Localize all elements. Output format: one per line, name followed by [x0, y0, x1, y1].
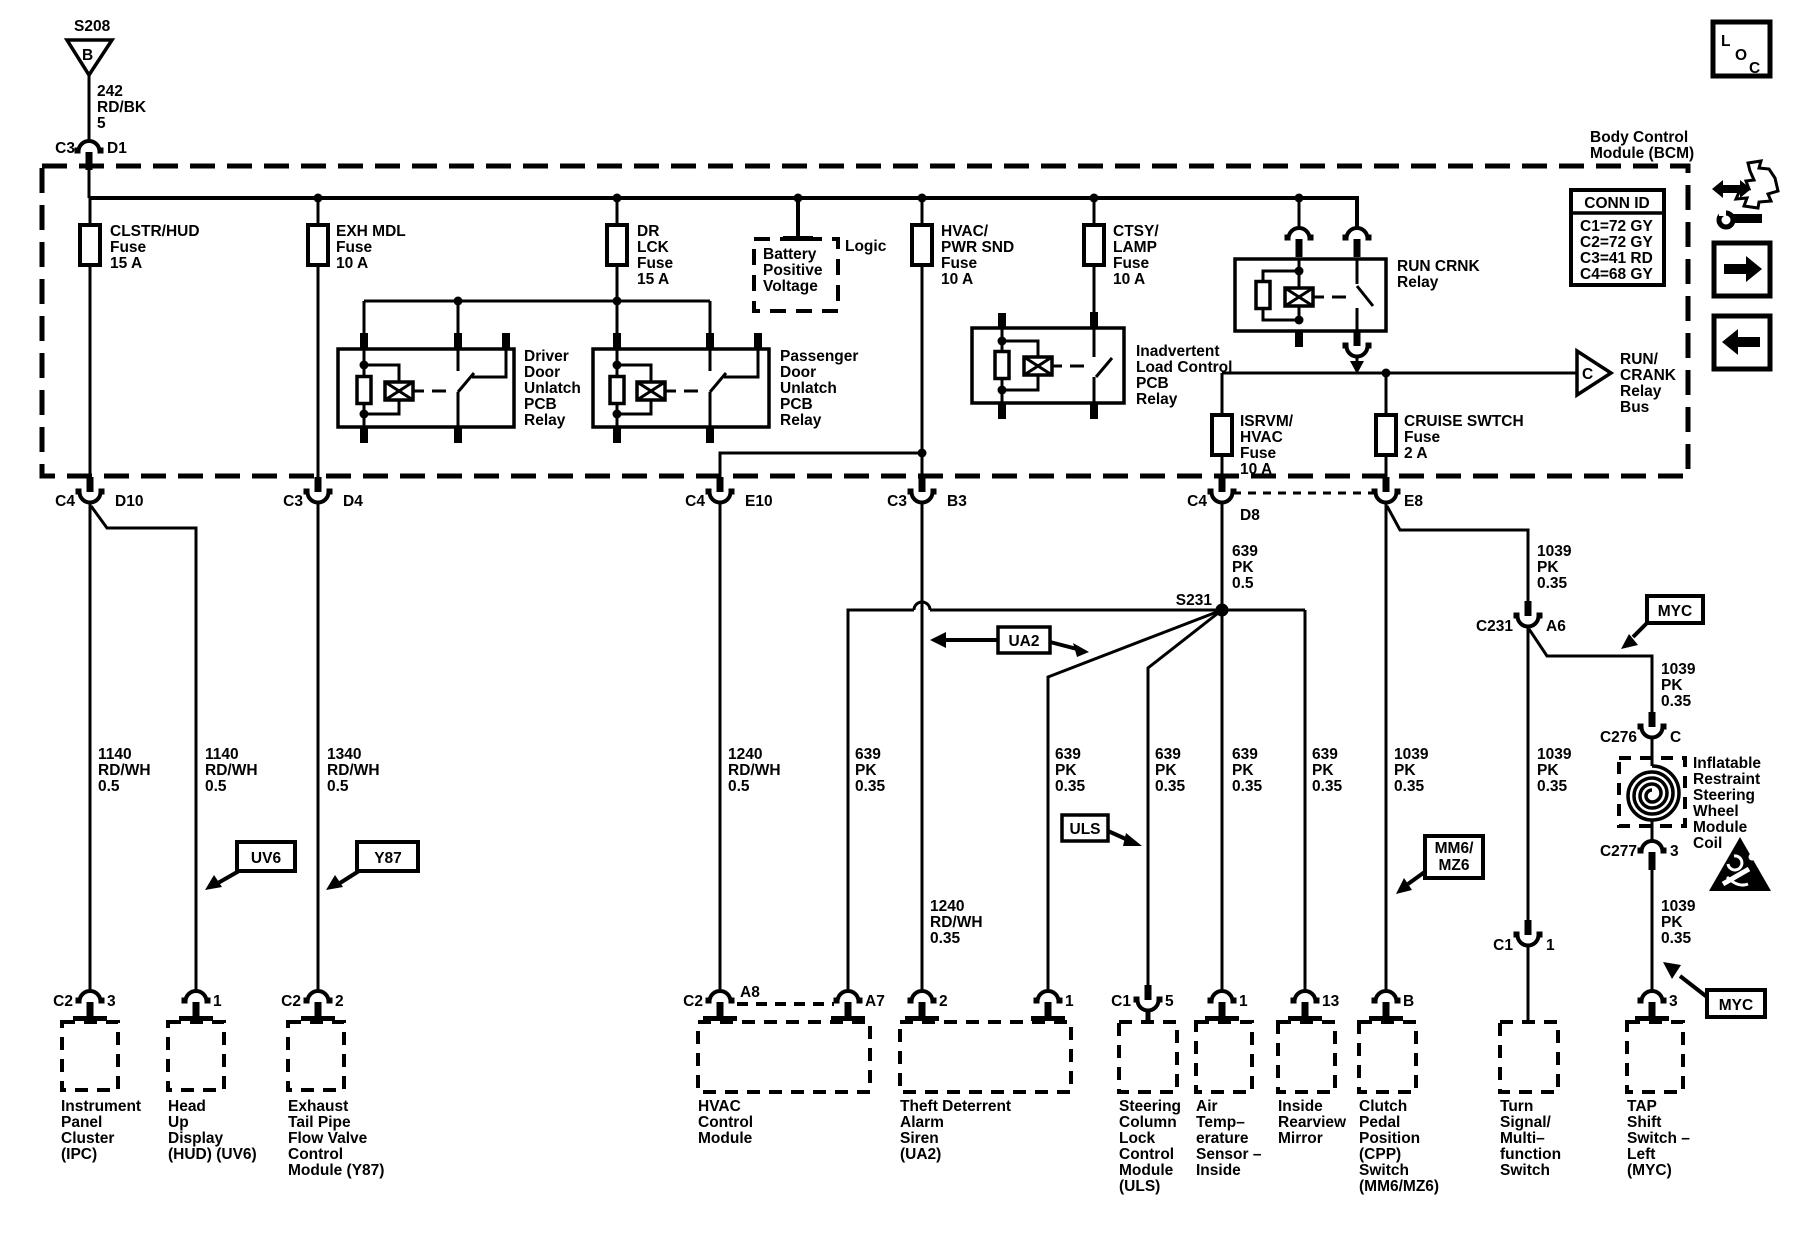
svg-text:RUN/: RUN/: [1620, 351, 1659, 368]
svg-text:(HUD) (UV6): (HUD) (UV6): [168, 1146, 257, 1163]
svg-text:639: 639: [1055, 746, 1081, 763]
svg-text:PK: PK: [1055, 762, 1077, 779]
node: bus junction at battery voltage tap: [794, 194, 803, 203]
node: sub-bus junction at DR LCK fuse feed: [613, 297, 622, 306]
svg-text:Bus: Bus: [1620, 399, 1649, 416]
svg-text:C4: C4: [1187, 493, 1207, 510]
svg-text:Unlatch: Unlatch: [780, 380, 837, 397]
svg-text:Fuse: Fuse: [1113, 255, 1150, 272]
wire coil to switch actuator (dashed): [665, 390, 676, 393]
svg-text:C2=72 GY: C2=72 GY: [1580, 234, 1653, 251]
svg-text:0.5: 0.5: [1232, 575, 1254, 592]
wire relay bus to E8 through CRUISE SWTCH fuse: [1385, 373, 1388, 477]
passenger relay switch blade: [710, 373, 726, 392]
svg-text:Inadvertent: Inadvertent: [1136, 343, 1220, 360]
wire S231 left branch with hop over siren wire: [848, 602, 1305, 991]
TAP Shift Switch dashed box: [1627, 1022, 1683, 1092]
callout Y87: [357, 842, 418, 871]
wire bus to RUN CRNK coil pin: [1298, 198, 1301, 228]
connector C1 1: [1514, 920, 1543, 946]
fuse CLSTR/HUD 15 A: [80, 225, 100, 265]
icon: two-way hand/wrench symbol: [1736, 161, 1778, 208]
svg-text:LCK: LCK: [637, 239, 670, 256]
wire C231 branch to C276: [1529, 629, 1652, 712]
passenger relay coil circuit: [616, 365, 619, 414]
connector C3 D4: [304, 477, 333, 503]
svg-text:Module: Module: [698, 1130, 753, 1147]
wire bus to inadvertent relay switch through CTSY/LAMP fuse: [1093, 198, 1096, 328]
driver relay switch blade: [458, 373, 474, 392]
svg-text:C231: C231: [1476, 618, 1513, 635]
Body Control Module (BCM) dashed box: [42, 166, 1688, 476]
splice S208 triangle B: [67, 40, 112, 75]
RUN CRNK switch output: [1356, 308, 1359, 331]
svg-text:E8: E8: [1404, 493, 1423, 510]
svg-text:0.35: 0.35: [1232, 778, 1263, 795]
svg-text:B: B: [1403, 993, 1414, 1010]
SIR caution triangle: [1709, 837, 1771, 891]
Clutch Pedal Position Switch dashed box: [1359, 1022, 1416, 1092]
wire bus tap to Battery Positive Voltage logic box: [796, 198, 800, 239]
svg-text:RD/WH: RD/WH: [728, 762, 781, 779]
node: inadvertent coil top: [998, 337, 1007, 346]
resistor in RUN CRNK relay: [1256, 282, 1270, 309]
svg-text:C1: C1: [1111, 993, 1131, 1010]
connector E8: [1372, 477, 1401, 503]
svg-text:1340: 1340: [327, 746, 361, 763]
svg-text:PCB: PCB: [524, 396, 557, 413]
node: bus junction at DR LCK fuse: [613, 194, 622, 203]
svg-text:Display: Display: [168, 1130, 224, 1147]
svg-text:RD/BK: RD/BK: [97, 99, 147, 116]
svg-text:Fuse: Fuse: [1240, 445, 1277, 462]
svg-text:function: function: [1500, 1146, 1561, 1163]
svg-text:C2: C2: [683, 993, 703, 1010]
svg-text:Switch: Switch: [1359, 1162, 1409, 1179]
svg-text:PK: PK: [1661, 677, 1683, 694]
svg-text:C3=41 RD: C3=41 RD: [1580, 250, 1653, 267]
callout MYC with arrow (upper): [1647, 596, 1703, 623]
svg-text:DR: DR: [637, 223, 659, 240]
svg-text:Y87: Y87: [374, 850, 402, 867]
fuse CTSY/LAMP 10 A: [1084, 225, 1104, 265]
svg-text:639: 639: [1155, 746, 1181, 763]
svg-text:1039: 1039: [1661, 898, 1696, 915]
svg-text:Tail Pipe: Tail Pipe: [288, 1114, 351, 1131]
RUN CRNK switch feed: [1356, 259, 1359, 284]
node C: RUN/CRANK Relay Bus off-page triangle: [1577, 351, 1611, 395]
connector C277 3: [1638, 841, 1667, 870]
svg-text:Inside: Inside: [1278, 1098, 1323, 1115]
svg-text:Unlatch: Unlatch: [524, 380, 581, 397]
svg-text:Cluster: Cluster: [61, 1130, 114, 1147]
svg-text:0.35: 0.35: [1537, 778, 1568, 795]
Instrument Panel Cluster dashed box: [62, 1022, 118, 1090]
svg-text:MYC: MYC: [1719, 997, 1753, 1014]
svg-text:Fuse: Fuse: [637, 255, 674, 272]
svg-text:1039: 1039: [1661, 661, 1696, 678]
svg-text:Shift: Shift: [1627, 1114, 1661, 1131]
svg-text:S208: S208: [74, 18, 111, 35]
callout ULS with arrow: [1062, 815, 1108, 841]
svg-text:L: L: [1721, 33, 1730, 50]
svg-text:PK: PK: [855, 762, 877, 779]
svg-text:0.35: 0.35: [1394, 778, 1425, 795]
passenger relay coil output pin: [616, 414, 619, 427]
inadvertent relay coil feed pin: [998, 313, 1006, 329]
connector C4 E10: [706, 477, 735, 503]
wire sub-bus to driver relay switch contact: [457, 301, 460, 371]
svg-text:Switch: Switch: [1500, 1162, 1550, 1179]
svg-text:Module (Y87): Module (Y87): [288, 1162, 384, 1179]
callout MM6/MZ6 with arrow: [1425, 836, 1483, 878]
svg-text:MYC: MYC: [1658, 603, 1692, 620]
svg-text:Control: Control: [698, 1114, 753, 1131]
connector pin 2 Exhaust module: [304, 991, 333, 1020]
connector pin B Clutch Pedal Position switch: [1372, 991, 1401, 1020]
svg-text:Head: Head: [168, 1098, 206, 1115]
svg-text:0.35: 0.35: [1661, 930, 1692, 947]
svg-text:1240: 1240: [728, 746, 762, 763]
connector C231 A6: [1514, 601, 1543, 627]
connector pin 13 Inside Rearview Mirror: [1291, 991, 1320, 1020]
Head Up Display dashed box: [168, 1022, 224, 1090]
svg-text:RD/WH: RD/WH: [98, 762, 151, 779]
svg-text:MZ6: MZ6: [1439, 857, 1470, 874]
connector pin 3 TAP Shift Switch: [1638, 991, 1667, 1020]
svg-text:3: 3: [1669, 993, 1678, 1010]
wire D10 to Instrument Panel Cluster: [89, 503, 92, 991]
svg-text:Steering: Steering: [1119, 1098, 1181, 1115]
inadvertent relay switch output pin: [1093, 377, 1096, 403]
svg-text:B: B: [82, 47, 93, 64]
svg-text:Mirror: Mirror: [1278, 1130, 1323, 1147]
svg-text:5: 5: [1165, 993, 1174, 1010]
fuse DR LCK 15 A: [607, 225, 627, 265]
svg-text:2: 2: [939, 993, 948, 1010]
resistor in inadvertent relay: [995, 352, 1009, 379]
svg-text:Siren: Siren: [900, 1130, 939, 1147]
svg-text:1039: 1039: [1394, 746, 1429, 763]
svg-text:RD/WH: RD/WH: [205, 762, 258, 779]
svg-text:Passenger: Passenger: [780, 348, 858, 365]
svg-text:PCB: PCB: [1136, 375, 1169, 392]
dashed link A8 to A7: [737, 1002, 834, 1006]
svg-text:Relay: Relay: [524, 412, 566, 429]
svg-text:Position: Position: [1359, 1130, 1420, 1147]
relay: Driver Door Unlatch PCB Relay box: [338, 349, 514, 427]
wire S231 diagonal to siren pin 1: [1048, 610, 1222, 991]
svg-text:UA2: UA2: [1008, 633, 1039, 650]
Inside Rearview Mirror dashed box: [1278, 1022, 1335, 1092]
svg-text:Inside: Inside: [1196, 1162, 1241, 1179]
passenger relay switch NC contact path: [724, 349, 758, 377]
svg-text:639: 639: [1232, 543, 1258, 560]
svg-text:0.5: 0.5: [728, 778, 750, 795]
svg-text:C4: C4: [685, 493, 705, 510]
svg-text:Panel: Panel: [61, 1114, 102, 1131]
node: sub-bus junction at driver relay switch: [454, 297, 463, 306]
svg-text:1: 1: [1546, 937, 1555, 954]
svg-text:Restraint: Restraint: [1693, 771, 1760, 788]
svg-text:639: 639: [1232, 746, 1258, 763]
svg-text:Logic: Logic: [845, 238, 887, 255]
node: bus junction at RUN CRNK relay coil: [1295, 194, 1304, 203]
svg-text:1039: 1039: [1537, 543, 1572, 560]
svg-text:D8: D8: [1240, 507, 1260, 524]
RUN CRNK switch blade: [1357, 286, 1373, 306]
wire coil to switch actuator (dashed): [1313, 296, 1324, 299]
svg-text:PK: PK: [1537, 762, 1559, 779]
svg-text:(UA2): (UA2): [900, 1146, 941, 1163]
svg-text:1240: 1240: [930, 898, 964, 915]
wire DR LCK fuse to passenger relay coil: [616, 301, 619, 365]
RUN/CRANK relay bus wire: [1222, 372, 1577, 375]
svg-text:HVAC: HVAC: [698, 1098, 741, 1115]
svg-text:Steering: Steering: [1693, 787, 1755, 804]
svg-text:C3: C3: [55, 140, 75, 157]
svg-text:0.35: 0.35: [1537, 575, 1568, 592]
svg-text:D4: D4: [343, 493, 363, 510]
svg-text:CRUISE SWTCH: CRUISE SWTCH: [1404, 413, 1524, 430]
HVAC Control Module dashed box: [698, 1022, 870, 1092]
svg-text:Relay: Relay: [1620, 383, 1662, 400]
svg-text:Relay: Relay: [780, 412, 822, 429]
Exhaust Tail Pipe Flow Valve Control Module dashed box: [288, 1022, 344, 1090]
svg-text:C276: C276: [1600, 729, 1637, 746]
svg-text:CLSTR/HUD: CLSTR/HUD: [110, 223, 200, 240]
wire relay bus to D8 through ISRVM/HVAC fuse: [1221, 373, 1224, 477]
svg-text:D1: D1: [107, 140, 127, 157]
svg-text:Coil: Coil: [1693, 835, 1722, 852]
svg-text:EXH MDL: EXH MDL: [336, 223, 406, 240]
svg-text:(CPP): (CPP): [1359, 1146, 1401, 1163]
svg-text:Fuse: Fuse: [1404, 429, 1441, 446]
wire E10 feed jog inside BCM: [720, 453, 922, 477]
wire C277 to TAP shift switch: [1651, 866, 1654, 991]
svg-text:C3: C3: [887, 493, 907, 510]
wire bus to B3 through HVAC/PWR SND fuse: [921, 198, 924, 477]
svg-text:0.35: 0.35: [1661, 693, 1692, 710]
svg-text:15 A: 15 A: [637, 271, 669, 288]
svg-text:0.5: 0.5: [98, 778, 120, 795]
svg-text:D10: D10: [115, 493, 143, 510]
fuse ISRVM/HVAC 10 A: [1212, 415, 1232, 455]
Inflatable Restraint Steering Wheel Module Coil dashed box: [1619, 758, 1685, 826]
svg-text:1039: 1039: [1537, 746, 1572, 763]
svg-text:Voltage: Voltage: [763, 278, 818, 295]
icon: forward arrow box: [1714, 243, 1770, 296]
relay: Passenger Door Unlatch PCB Relay box: [593, 349, 769, 427]
svg-text:Sensor –: Sensor –: [1196, 1146, 1262, 1163]
svg-text:C1=72 GY: C1=72 GY: [1580, 218, 1653, 235]
svg-text:PK: PK: [1232, 762, 1254, 779]
coil spiral: [1628, 766, 1679, 820]
svg-text:Temp–: Temp–: [1196, 1114, 1245, 1131]
svg-text:MM6/: MM6/: [1435, 840, 1474, 857]
resistor in passenger relay: [610, 377, 624, 404]
svg-text:A8: A8: [740, 984, 760, 1001]
svg-text:1140: 1140: [205, 746, 239, 763]
node: driver coil top: [360, 361, 369, 370]
svg-text:0.35: 0.35: [1312, 778, 1343, 795]
fuse HVAC/PWR SND 10 A: [912, 225, 932, 265]
RUN CRNK coil ground pin stub: [1295, 331, 1303, 347]
Battery Positive Voltage dashed box: [754, 239, 838, 311]
svg-text:A7: A7: [865, 993, 885, 1010]
svg-text:10 A: 10 A: [1113, 271, 1145, 288]
svg-text:PK: PK: [1661, 914, 1683, 931]
driver relay coil circuit: [363, 365, 366, 414]
svg-text:10 A: 10 A: [336, 255, 368, 272]
node: bus junction at CRUISE SWTCH fuse: [1382, 369, 1391, 378]
svg-text:PK: PK: [1537, 559, 1559, 576]
svg-text:Module (BCM): Module (BCM): [1590, 145, 1694, 162]
callout UA2 with arrows: [998, 627, 1050, 653]
svg-text:Driver: Driver: [524, 348, 569, 365]
fuse EXH MDL 10 A: [308, 225, 328, 265]
wire S231 down to Air Temperature Sensor: [1221, 610, 1224, 991]
svg-text:Positive: Positive: [763, 262, 823, 279]
Steering Column Lock Control Module dashed box: [1119, 1022, 1177, 1092]
wire from D1 into BCM to bus: [88, 160, 91, 198]
connector C3 D1: [75, 141, 104, 170]
svg-text:C4: C4: [55, 493, 75, 510]
connector C3 B3: [908, 477, 937, 503]
svg-text:PWR SND: PWR SND: [941, 239, 1014, 256]
passenger relay switch output pin: [709, 392, 712, 427]
svg-text:A6: A6: [1546, 618, 1566, 635]
fuse CRUISE SWTCH 2 A: [1376, 415, 1396, 455]
driver relay switch NC contact path: [472, 349, 506, 377]
wire coil to switch actuator (dashed): [1052, 365, 1062, 368]
svg-text:CTSY/: CTSY/: [1113, 223, 1159, 240]
inadvertent relay coil circuit: [1001, 329, 1004, 390]
svg-text:1: 1: [213, 993, 222, 1010]
connector pin 2 Theft Deterrent Alarm Siren: [908, 991, 937, 1020]
svg-text:1: 1: [1065, 993, 1074, 1010]
node: inadvertent coil bottom: [998, 386, 1007, 395]
svg-text:Inflatable: Inflatable: [1693, 755, 1761, 772]
node: bus junction at EXH MDL fuse: [314, 194, 323, 203]
svg-text:Multi–: Multi–: [1500, 1130, 1545, 1147]
Theft Deterrent Alarm Siren dashed box: [900, 1022, 1071, 1092]
RUN CRNK coil circuit: [1298, 259, 1301, 320]
relay: Inadvertent Load Control PCB Relay box: [972, 328, 1124, 403]
node: RUN CRNK coil bottom: [1295, 316, 1304, 325]
svg-text:Alarm: Alarm: [900, 1114, 944, 1131]
wire D4 to Exhaust Tail Pipe Flow Valve Control Module: [317, 503, 320, 991]
node: RUN CRNK coil top: [1295, 267, 1304, 276]
node: bus junction at CTSY/LAMP fuse: [1090, 194, 1099, 203]
svg-text:Rearview: Rearview: [1278, 1114, 1347, 1131]
svg-text:0.35: 0.35: [1155, 778, 1186, 795]
node: driver coil bottom: [360, 410, 369, 419]
svg-text:Fuse: Fuse: [941, 255, 978, 272]
icon: back arrow box: [1714, 316, 1770, 369]
icon: location (LOC) box: [1713, 22, 1770, 76]
svg-text:Signal/: Signal/: [1500, 1114, 1552, 1131]
wire E8 branch to C231: [1387, 506, 1528, 601]
svg-text:5: 5: [97, 115, 106, 132]
svg-text:C3: C3: [283, 493, 303, 510]
wire coil to switch actuator (dashed): [413, 390, 424, 393]
svg-text:ULS: ULS: [1070, 821, 1101, 838]
wire C231 to Turn Signal/Multifunction Switch: [1527, 626, 1530, 920]
wire CTSY/LAMP fuse into inadvertent switch: [1090, 312, 1098, 329]
svg-text:C2: C2: [53, 993, 73, 1010]
node: bus junction at HVAC/PWR SND fuse: [918, 194, 927, 203]
connector C1 5 Steering Column Lock Control Module: [1134, 985, 1163, 1011]
svg-text:10 A: 10 A: [941, 271, 973, 288]
relay: RUN CRNK Relay box: [1235, 259, 1386, 331]
coil symbol passenger relay: [637, 382, 665, 400]
svg-text:B3: B3: [947, 493, 967, 510]
svg-text:(ULS): (ULS): [1119, 1178, 1160, 1195]
wire sub-bus to driver relay coil: [363, 301, 366, 365]
svg-text:Module: Module: [1693, 819, 1748, 836]
svg-text:Column: Column: [1119, 1114, 1177, 1131]
svg-text:Door: Door: [780, 364, 816, 381]
svg-text:PK: PK: [1394, 762, 1416, 779]
svg-text:Door: Door: [524, 364, 560, 381]
main power bus wire: [89, 198, 1357, 228]
node: passenger coil bottom: [613, 410, 622, 419]
svg-text:Switch –: Switch –: [1627, 1130, 1690, 1147]
svg-text:Control: Control: [288, 1146, 343, 1163]
driver relay switch output pin: [457, 392, 460, 427]
wire S231 diagonal to steering column lock module: [1148, 610, 1222, 985]
wire coil to C277: [1651, 820, 1654, 841]
connector C276 C: [1638, 712, 1667, 738]
svg-text:CONN ID: CONN ID: [1584, 195, 1649, 212]
svg-text:C: C: [1582, 366, 1593, 383]
svg-text:HVAC: HVAC: [1240, 429, 1283, 446]
svg-text:C: C: [1749, 60, 1760, 77]
wire bus to D4 through EXH MDL fuse: [317, 198, 320, 477]
svg-text:Body Control: Body Control: [1590, 129, 1688, 146]
svg-text:S231: S231: [1176, 592, 1213, 609]
svg-text:HVAC/: HVAC/: [941, 223, 989, 240]
wire into turn signal switch box: [1527, 945, 1530, 1022]
svg-text:(MM6/MZ6): (MM6/MZ6): [1359, 1178, 1439, 1195]
wire E10 to HVAC Control Module pin A8: [719, 503, 722, 991]
svg-text:Up: Up: [168, 1114, 189, 1131]
svg-text:10 A: 10 A: [1240, 461, 1272, 478]
svg-text:(MYC): (MYC): [1627, 1162, 1672, 1179]
svg-text:erature: erature: [1196, 1130, 1249, 1147]
svg-text:C1: C1: [1493, 937, 1513, 954]
wire D8 to splice S231: [1221, 503, 1224, 610]
dotted link between D8 and E8: [1233, 492, 1374, 495]
svg-text:0.35: 0.35: [855, 778, 886, 795]
svg-text:Relay: Relay: [1136, 391, 1178, 408]
connector pin 1 Theft Deterrent Alarm Siren: [1034, 991, 1063, 1020]
wire B3 to Theft Deterrent Alarm Siren pin 2: [921, 503, 924, 991]
Air Temperature Sensor dashed box: [1196, 1022, 1252, 1092]
svg-text:2: 2: [335, 993, 344, 1010]
svg-text:13: 13: [1322, 993, 1340, 1010]
svg-text:Clutch: Clutch: [1359, 1098, 1407, 1115]
wire from S208 to connector D1: [88, 75, 91, 141]
svg-text:3: 3: [107, 993, 116, 1010]
svg-text:RUN CRNK: RUN CRNK: [1397, 258, 1480, 275]
connector C4 D10: [76, 477, 105, 503]
wire E8 to Clutch Pedal Position switch: [1385, 503, 1388, 991]
wire D10 branch to Head Up Display: [91, 506, 196, 991]
svg-text:1: 1: [1239, 993, 1248, 1010]
svg-text:639: 639: [1312, 746, 1338, 763]
